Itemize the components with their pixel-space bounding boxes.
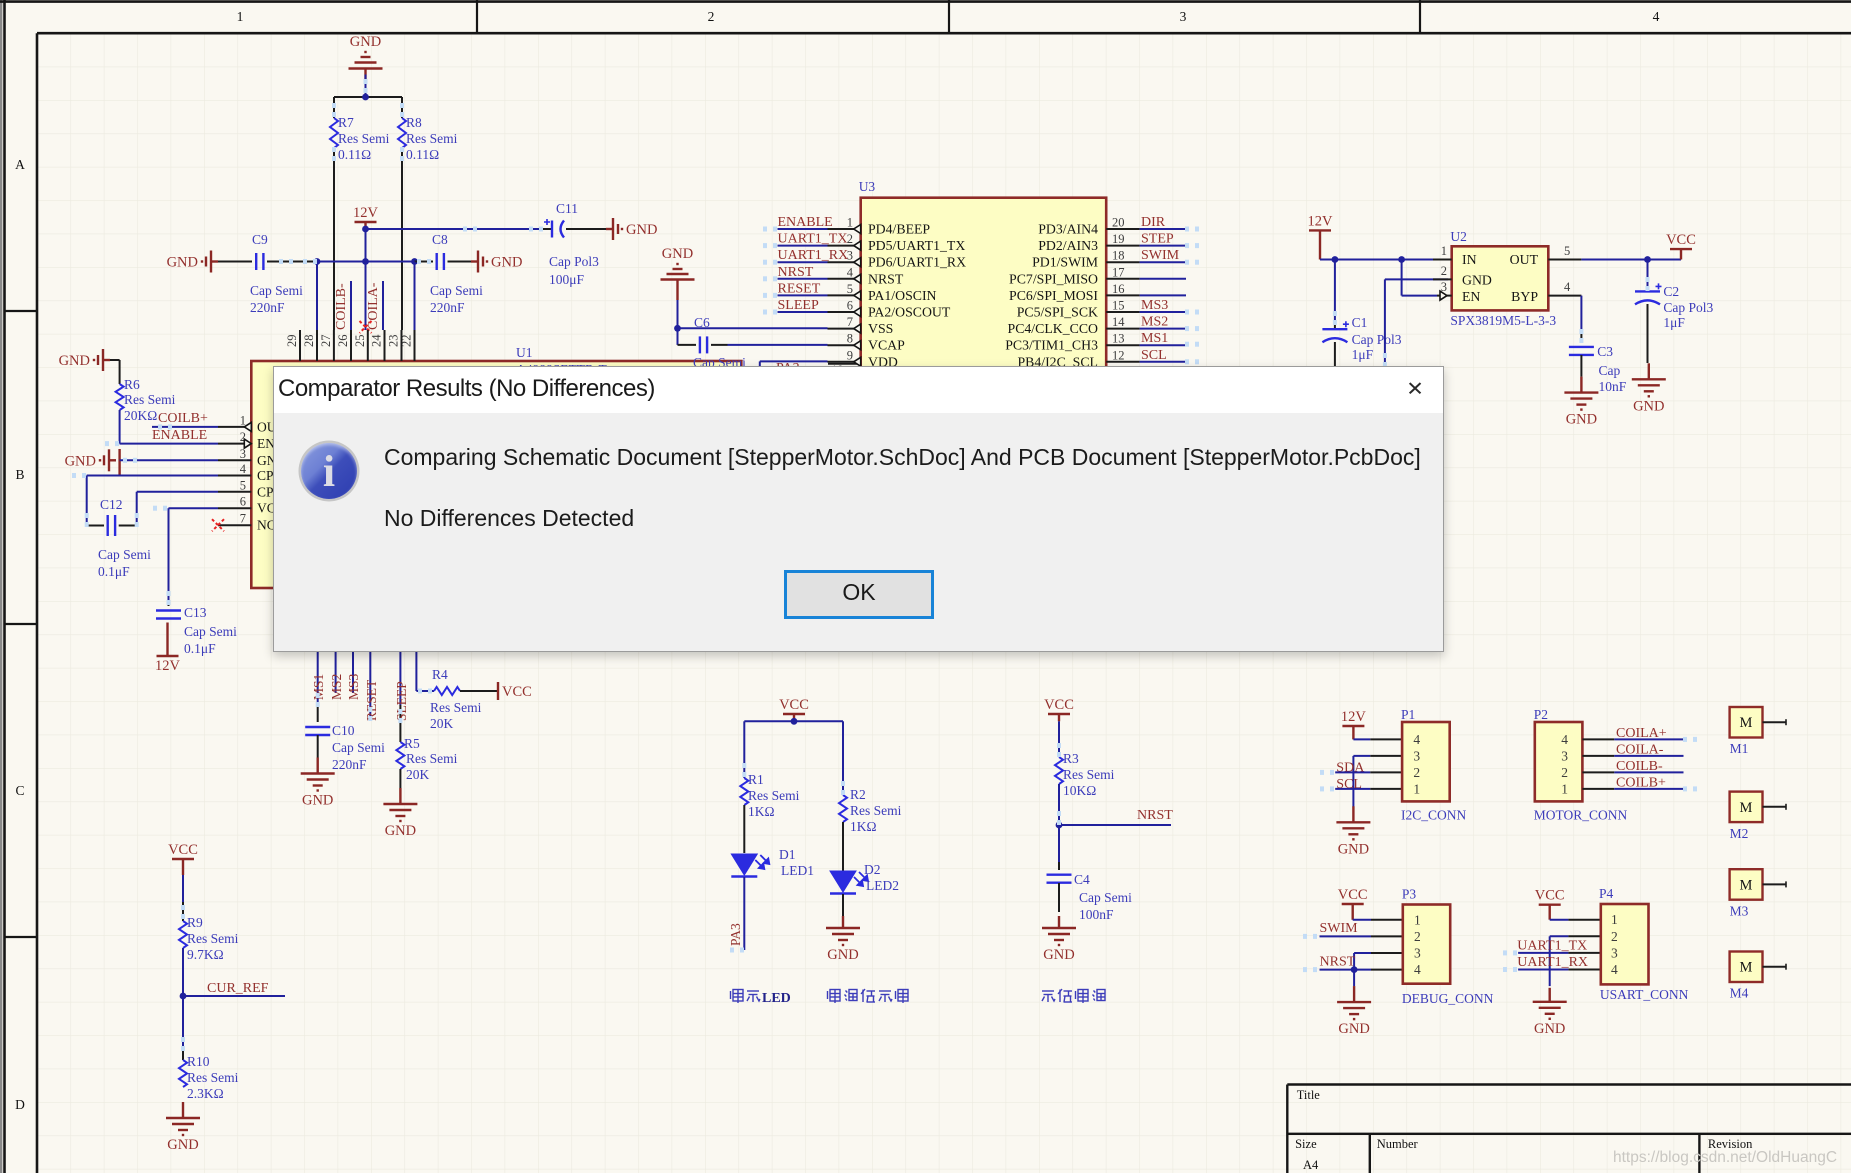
wire U3 right stub bbox=[1140, 311, 1186, 313]
U1 pin 2 bbox=[218, 430, 275, 451]
svg-text:M: M bbox=[1740, 800, 1753, 816]
U3 pin 14 bbox=[1008, 315, 1140, 336]
svg-text:15: 15 bbox=[1112, 299, 1125, 313]
svg-text:20KΩ: 20KΩ bbox=[124, 408, 157, 423]
wire U3 left stub bbox=[778, 245, 828, 247]
svg-text:2: 2 bbox=[1611, 929, 1618, 944]
svg-text:Res Semi: Res Semi bbox=[1063, 767, 1115, 782]
svg-text:COILA-: COILA- bbox=[366, 282, 381, 330]
svg-text:2: 2 bbox=[1413, 765, 1420, 780]
ground C10 bbox=[301, 758, 335, 809]
svg-text:5: 5 bbox=[847, 282, 853, 296]
svg-text:C12: C12 bbox=[100, 497, 123, 512]
U2 pin 1 bbox=[1433, 244, 1452, 260]
wire cap rail bbox=[317, 261, 415, 263]
net label CUR_REF bbox=[207, 981, 269, 996]
power VCC P3 bbox=[1338, 887, 1368, 920]
svg-text:M: M bbox=[1740, 877, 1753, 893]
ground C9 left bbox=[167, 251, 218, 273]
U1 pin 4 bbox=[218, 462, 280, 483]
svg-text:3: 3 bbox=[1413, 748, 1420, 763]
svg-text:Res Semi: Res Semi bbox=[187, 1070, 239, 1085]
svg-text:NRST: NRST bbox=[1320, 954, 1356, 969]
svg-text:2: 2 bbox=[708, 9, 715, 24]
U3 pin 15 bbox=[1017, 299, 1140, 320]
svg-text:VCC: VCC bbox=[1666, 232, 1696, 248]
svg-text:4: 4 bbox=[1414, 962, 1421, 977]
wire VCC to R3 bbox=[1058, 721, 1060, 757]
wire pin22 drop bbox=[414, 262, 416, 331]
svg-text:Res Semi: Res Semi bbox=[850, 803, 902, 818]
svg-text:5: 5 bbox=[1564, 244, 1570, 258]
wire LED rail bbox=[744, 720, 843, 722]
wire node to R10 bbox=[182, 996, 184, 1060]
svg-text:GND: GND bbox=[65, 453, 96, 469]
svg-text:3: 3 bbox=[240, 447, 246, 461]
svg-text:PA2/OSCOUT: PA2/OSCOUT bbox=[868, 305, 951, 320]
wire GND stem to rail bbox=[365, 75, 367, 98]
svg-text:PD2/AIN3: PD2/AIN3 bbox=[1038, 238, 1098, 253]
power VCC P4 bbox=[1535, 888, 1565, 920]
wire U3 left stub bbox=[778, 261, 828, 263]
ground C2 bbox=[1632, 363, 1666, 414]
svg-text:Cap Pol3: Cap Pol3 bbox=[1663, 300, 1713, 315]
svg-text:GND: GND bbox=[302, 793, 333, 809]
wire R9 to node bbox=[182, 948, 184, 996]
capacitor C3 bbox=[1569, 344, 1627, 394]
wire R1 to D1 bbox=[743, 805, 745, 853]
LED D1 bbox=[731, 847, 814, 878]
svg-text:I2C_CONN: I2C_CONN bbox=[1401, 808, 1467, 823]
wire SLEEP column bbox=[399, 588, 401, 723]
wire MS1 column bbox=[317, 588, 319, 705]
wire R2 to D2 bbox=[842, 822, 844, 871]
svg-text:COILB+: COILB+ bbox=[1616, 775, 1666, 790]
svg-text:M: M bbox=[1740, 960, 1753, 976]
svg-text:M: M bbox=[1740, 715, 1753, 731]
svg-text:PC5/SPI_SCK: PC5/SPI_SCK bbox=[1017, 305, 1098, 320]
svg-text:RESET: RESET bbox=[778, 281, 821, 296]
svg-text:Title: Title bbox=[1297, 1088, 1321, 1102]
svg-text:26: 26 bbox=[336, 335, 350, 348]
svg-text:MS3: MS3 bbox=[1141, 298, 1168, 313]
svg-text:4: 4 bbox=[1564, 280, 1571, 294]
svg-text:7: 7 bbox=[847, 315, 853, 329]
wire VSS bbox=[678, 300, 828, 328]
svg-text:UART1_RX: UART1_RX bbox=[1517, 955, 1588, 970]
svg-text:4: 4 bbox=[1653, 9, 1660, 24]
svg-text:1μF: 1μF bbox=[1352, 347, 1374, 362]
LED D2 bbox=[830, 862, 899, 894]
svg-text:27: 27 bbox=[319, 335, 333, 348]
svg-text:GND: GND bbox=[167, 1137, 198, 1153]
U1 top pin 27 bbox=[319, 330, 334, 361]
svg-text:PD1/SWIM: PD1/SWIM bbox=[1032, 255, 1098, 270]
wire U2 EN pin3 bbox=[1402, 260, 1437, 296]
IC U3 STM8 bbox=[859, 179, 1106, 373]
U1 top pin 22 bbox=[400, 330, 415, 361]
svg-text:UART1_TX: UART1_TX bbox=[778, 232, 848, 247]
net label COILB- bbox=[334, 283, 349, 330]
power 12V bbox=[353, 205, 379, 229]
svg-text:1: 1 bbox=[1561, 781, 1568, 796]
svg-text:NRST: NRST bbox=[778, 265, 814, 280]
net label MS3 bbox=[346, 673, 361, 700]
svg-text:8: 8 bbox=[847, 332, 853, 346]
svg-text:Res Semi: Res Semi bbox=[406, 751, 458, 766]
net label MS1 bbox=[1141, 331, 1168, 346]
net label STEP bbox=[1141, 232, 1174, 247]
module M1 bbox=[1730, 707, 1786, 756]
svg-text:C11: C11 bbox=[556, 201, 578, 216]
power VCC U2 bbox=[1666, 232, 1696, 259]
svg-text:PC4/CLK_CCO: PC4/CLK_CCO bbox=[1008, 321, 1099, 336]
wire VCAP branch bbox=[678, 328, 697, 345]
net label PA3 partial bbox=[776, 361, 800, 376]
svg-text:U3: U3 bbox=[859, 179, 876, 194]
wire VCAP bbox=[728, 344, 828, 346]
svg-text:1KΩ: 1KΩ bbox=[748, 804, 775, 819]
U3 pin 19 bbox=[1038, 232, 1139, 253]
svg-text:P1: P1 bbox=[1401, 707, 1415, 722]
svg-text:R6: R6 bbox=[124, 377, 140, 392]
U3 pin 10 partial bbox=[828, 363, 861, 377]
U3 pin 17 bbox=[1009, 265, 1140, 286]
svg-text:P2: P2 bbox=[1534, 707, 1548, 722]
wire COILB+ pin1 bbox=[152, 426, 218, 428]
svg-text:2: 2 bbox=[847, 232, 853, 246]
wire 12V to U2 IN bbox=[1320, 259, 1448, 261]
wire node to C4 bbox=[1058, 825, 1060, 870]
wire pin3 bbox=[120, 459, 218, 461]
U3 pin 1 bbox=[828, 216, 931, 237]
svg-text:GND: GND bbox=[1462, 273, 1492, 288]
svg-text:2.3KΩ: 2.3KΩ bbox=[187, 1086, 224, 1101]
module M3 bbox=[1730, 869, 1786, 918]
caption power indicator bbox=[828, 989, 909, 1003]
U1 pin 7 bbox=[218, 512, 276, 533]
svg-text:18: 18 bbox=[1112, 249, 1125, 263]
wire NRST P3 bbox=[1320, 969, 1403, 971]
net label COILB+ bbox=[1616, 775, 1666, 790]
svg-text:Cap Pol3: Cap Pol3 bbox=[549, 254, 599, 269]
svg-text:25: 25 bbox=[353, 335, 367, 348]
net label UART1_TX bbox=[778, 232, 848, 247]
wire CUR_REF stub bbox=[183, 995, 285, 997]
watermark bbox=[1613, 1149, 1837, 1166]
connector P3 bbox=[1402, 887, 1494, 1006]
power VCC reset bbox=[1044, 697, 1074, 721]
wire NRST stub bbox=[1059, 824, 1171, 826]
U2 pin 3 bbox=[1437, 280, 1452, 300]
svg-text:D1: D1 bbox=[779, 847, 796, 862]
resistor R8 bbox=[398, 115, 458, 162]
wire D2 to GND bbox=[842, 894, 844, 928]
U1 top pin 24 bbox=[370, 330, 385, 361]
wire R2 column bbox=[842, 721, 844, 795]
wire UART1_TX bbox=[1518, 952, 1601, 954]
capacitor C12 bbox=[98, 497, 151, 579]
svg-text:OUT: OUT bbox=[1510, 252, 1539, 267]
svg-text:NRST: NRST bbox=[1137, 808, 1173, 823]
junction NRST bbox=[1056, 822, 1063, 829]
wire P2 lead bbox=[1582, 755, 1683, 757]
svg-text:1μF: 1μF bbox=[1663, 315, 1685, 330]
svg-text:PD3/AIN4: PD3/AIN4 bbox=[1038, 222, 1098, 237]
wire BYP to C3 bbox=[1580, 296, 1582, 343]
svg-text:PD5/UART1_TX: PD5/UART1_TX bbox=[868, 238, 965, 253]
wire R7 column bbox=[333, 97, 335, 330]
U1 pin 5 bbox=[218, 478, 280, 499]
svg-text:https://blog.csdn.net/OldHuang: https://blog.csdn.net/OldHuangC bbox=[1613, 1149, 1837, 1166]
wire R7-R8 top rail bbox=[334, 96, 402, 98]
resistor R3 bbox=[1055, 751, 1115, 798]
connector P4 bbox=[1599, 886, 1689, 1002]
compile marks bbox=[72, 79, 1697, 1051]
svg-text:Cap: Cap bbox=[1599, 363, 1621, 378]
svg-text:USART_CONN: USART_CONN bbox=[1600, 987, 1689, 1002]
net label SCL bbox=[1141, 348, 1167, 363]
svg-text:GND: GND bbox=[1534, 1021, 1565, 1037]
wire RESET column bbox=[369, 588, 371, 721]
U3 pin 5 bbox=[828, 282, 937, 303]
svg-text:20K: 20K bbox=[406, 767, 430, 782]
wire SDA bbox=[1335, 771, 1402, 773]
svg-text:Res Semi: Res Semi bbox=[338, 131, 390, 146]
svg-text:COILB-: COILB- bbox=[1616, 759, 1663, 774]
U1 top pin 26 bbox=[336, 330, 351, 361]
module M2 bbox=[1730, 792, 1786, 841]
svg-text:12V: 12V bbox=[1308, 213, 1334, 229]
svg-text:20: 20 bbox=[1112, 216, 1125, 230]
svg-text:SLEEP: SLEEP bbox=[778, 298, 819, 313]
ground P1 bbox=[1336, 806, 1370, 857]
junction EN bbox=[1398, 256, 1405, 263]
ground U1 pin3 bbox=[65, 449, 120, 476]
svg-text:24: 24 bbox=[370, 334, 384, 347]
svg-text:GND: GND bbox=[1566, 412, 1597, 428]
svg-text:1: 1 bbox=[1441, 244, 1447, 258]
svg-text:COILA-: COILA- bbox=[1616, 742, 1664, 757]
svg-text:VCC: VCC bbox=[1338, 887, 1368, 903]
U3 pin 7 bbox=[828, 315, 894, 336]
svg-text:19: 19 bbox=[1112, 232, 1125, 246]
junction rail x317 bbox=[314, 258, 321, 265]
resistor R7 bbox=[330, 115, 390, 162]
wire P4 pin1 bbox=[1550, 919, 1601, 921]
svg-text:MOTOR_CONN: MOTOR_CONN bbox=[1534, 808, 1628, 823]
svg-text:29: 29 bbox=[285, 335, 299, 348]
power VCC R4 bbox=[498, 682, 532, 700]
resistor R2 bbox=[839, 787, 902, 834]
power VCC LEDs bbox=[779, 697, 809, 721]
wire P4 pin2 to GND bbox=[1550, 936, 1601, 986]
net label MS3 bbox=[1141, 298, 1168, 313]
wire U3 right stub bbox=[1140, 328, 1186, 330]
IC U1 A4988 bbox=[251, 345, 741, 588]
U1 pin 3 bbox=[218, 447, 286, 468]
svg-text:220nF: 220nF bbox=[332, 757, 367, 772]
ground R5 bbox=[383, 788, 417, 839]
wire pin28 drop bbox=[316, 262, 318, 331]
svg-text:DEBUG_CONN: DEBUG_CONN bbox=[1402, 991, 1494, 1006]
net label COILA- bbox=[366, 282, 381, 330]
net label ENABLE bbox=[152, 428, 207, 443]
svg-text:1: 1 bbox=[847, 216, 853, 230]
wire SCL bbox=[1335, 788, 1402, 790]
svg-text:PC3/TIM1_CH3: PC3/TIM1_CH3 bbox=[1005, 338, 1098, 353]
net label DIR bbox=[1141, 215, 1166, 230]
svg-text:Cap Semi: Cap Semi bbox=[184, 624, 237, 639]
svg-text:SPX3819M5-L-3-3: SPX3819M5-L-3-3 bbox=[1450, 313, 1556, 328]
resistor R6 bbox=[116, 377, 176, 423]
svg-text:U1: U1 bbox=[516, 345, 533, 360]
wire VDD bbox=[760, 361, 828, 370]
connector P1 bbox=[1401, 707, 1467, 823]
svg-text:NRST: NRST bbox=[868, 271, 904, 286]
svg-text:BYP: BYP bbox=[1511, 289, 1538, 304]
wire P3 pin3 to GND bbox=[1354, 953, 1403, 986]
resistor R9 bbox=[179, 915, 239, 962]
svg-text:GND: GND bbox=[385, 823, 416, 839]
net label UART1_RX bbox=[1517, 955, 1588, 970]
svg-text:C8: C8 bbox=[432, 232, 448, 247]
capacitor C6 bbox=[693, 315, 746, 370]
power 12V P1 bbox=[1341, 709, 1367, 739]
net label COILB- bbox=[1616, 759, 1663, 774]
svg-text:GND: GND bbox=[626, 222, 657, 238]
svg-text:PC6/SPI_MOSI: PC6/SPI_MOSI bbox=[1009, 288, 1098, 303]
svg-text:STEP: STEP bbox=[1141, 232, 1174, 247]
svg-text:COILA+: COILA+ bbox=[1616, 726, 1667, 741]
svg-text:6: 6 bbox=[240, 495, 246, 509]
capacitor C9 bbox=[218, 232, 317, 315]
svg-text:GND: GND bbox=[1338, 1021, 1369, 1037]
U3 pin 12 bbox=[1017, 348, 1139, 369]
svg-text:20K: 20K bbox=[430, 716, 454, 731]
ground C8 right bbox=[471, 251, 522, 273]
wire pin5 to C12 bbox=[119, 492, 218, 526]
svg-text:DIR: DIR bbox=[1141, 215, 1166, 230]
junction LED rail bbox=[791, 718, 798, 725]
wire U3 right stub bbox=[1140, 278, 1186, 280]
net label MS2 bbox=[1141, 315, 1168, 330]
wire U3 right stub bbox=[1140, 261, 1186, 263]
svg-text:C10: C10 bbox=[332, 723, 355, 738]
svg-text:Res Semi: Res Semi bbox=[124, 392, 176, 407]
capacitor C13 bbox=[156, 602, 237, 656]
junction 12V rail bbox=[362, 226, 369, 233]
svg-text:LED: LED bbox=[762, 991, 791, 1006]
svg-text:COILB+: COILB+ bbox=[158, 411, 208, 426]
U3 pin 2 bbox=[828, 232, 966, 253]
svg-text:MS3: MS3 bbox=[346, 673, 361, 700]
caption reset circuit bbox=[1042, 989, 1105, 1003]
dialog Comparator Results bbox=[273, 366, 1444, 652]
wire R6 to pin2 bbox=[120, 410, 218, 444]
U1 pin 6 bbox=[218, 495, 283, 516]
svg-text:Res Semi: Res Semi bbox=[406, 131, 458, 146]
svg-text:Cap Semi: Cap Semi bbox=[98, 547, 151, 562]
wire pin6 to C13 bbox=[169, 508, 219, 602]
junction rail x414 bbox=[411, 258, 418, 265]
svg-text:2: 2 bbox=[1441, 264, 1447, 278]
svg-text:GND: GND bbox=[1633, 398, 1664, 414]
svg-text:C13: C13 bbox=[184, 605, 207, 620]
wire U3 right stub bbox=[1140, 294, 1186, 296]
junction C1 bbox=[1332, 256, 1339, 263]
svg-text:12V: 12V bbox=[353, 205, 379, 221]
junction rail x366 bbox=[362, 258, 369, 265]
net label SDA bbox=[1336, 761, 1365, 776]
capacitor C11 bbox=[543, 201, 606, 287]
resistor R4 bbox=[430, 667, 498, 731]
svg-text:LED1: LED1 bbox=[781, 863, 814, 878]
svg-text:2: 2 bbox=[1561, 765, 1568, 780]
svg-text:GND: GND bbox=[59, 353, 90, 369]
junction C2 bbox=[1644, 256, 1651, 263]
svg-text:3: 3 bbox=[1561, 748, 1568, 763]
U3 pin 6 bbox=[828, 299, 951, 320]
svg-text:M3: M3 bbox=[1730, 903, 1749, 918]
wire U3 left stub bbox=[778, 278, 828, 280]
wire U3 left stub bbox=[778, 294, 828, 296]
svg-text:R4: R4 bbox=[432, 667, 448, 682]
svg-text:EN: EN bbox=[1462, 289, 1480, 304]
svg-text:1KΩ: 1KΩ bbox=[850, 819, 877, 834]
svg-text:4: 4 bbox=[1611, 962, 1618, 977]
caption debug LED bbox=[731, 990, 791, 1007]
svg-text:LED2: LED2 bbox=[866, 878, 899, 893]
net label SLEEP bbox=[778, 298, 819, 313]
svg-text:ENABLE: ENABLE bbox=[152, 428, 207, 443]
svg-text:PC7/SPI_MISO: PC7/SPI_MISO bbox=[1009, 271, 1098, 286]
net label COILA- bbox=[1616, 742, 1664, 757]
svg-text:1: 1 bbox=[1413, 781, 1420, 796]
U2 pin 2 bbox=[1433, 264, 1452, 279]
svg-text:PD4/BEEP: PD4/BEEP bbox=[868, 222, 930, 237]
svg-text:4: 4 bbox=[847, 265, 854, 279]
net label RESET bbox=[364, 679, 379, 721]
junction P3 bbox=[1351, 966, 1358, 973]
svg-text:5: 5 bbox=[240, 478, 246, 492]
wire VCC to R9 bbox=[182, 875, 184, 921]
svg-text:C1: C1 bbox=[1352, 315, 1368, 330]
svg-text:SWIM: SWIM bbox=[1141, 248, 1180, 263]
svg-text:Cap Semi: Cap Semi bbox=[1079, 890, 1132, 905]
ground C4 bbox=[1042, 916, 1076, 963]
svg-text:3: 3 bbox=[1180, 9, 1187, 24]
svg-text:VCC: VCC bbox=[168, 842, 198, 858]
wire P2 lead bbox=[1582, 771, 1683, 773]
net label SWIM bbox=[1141, 248, 1180, 263]
U3 pin 13 bbox=[1005, 332, 1139, 353]
svg-text:C6: C6 bbox=[694, 315, 710, 330]
power 12V U2 bbox=[1308, 213, 1334, 259]
svg-text:4: 4 bbox=[1413, 732, 1420, 747]
ground P3 bbox=[1337, 986, 1371, 1037]
net label UART1_TX bbox=[1517, 939, 1587, 954]
svg-text:VCC: VCC bbox=[502, 684, 532, 700]
svg-text:R10: R10 bbox=[187, 1054, 210, 1069]
resistor R1 bbox=[740, 772, 799, 819]
capacitor C1 bbox=[1322, 260, 1401, 367]
svg-text:R1: R1 bbox=[748, 772, 764, 787]
svg-text:7: 7 bbox=[240, 512, 246, 526]
svg-text:1: 1 bbox=[240, 413, 246, 427]
svg-text:SCL: SCL bbox=[1141, 348, 1167, 363]
svg-text:GND: GND bbox=[1338, 841, 1369, 857]
